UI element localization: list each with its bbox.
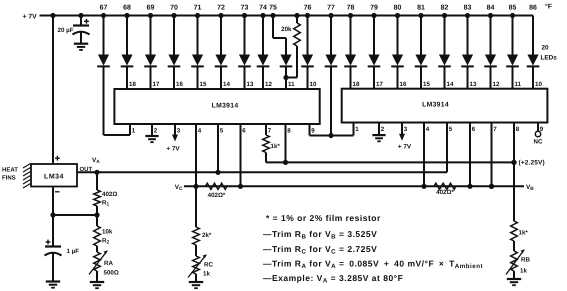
svg-text:70: 70	[170, 4, 178, 11]
svg-text:LEDs: LEDs	[541, 55, 558, 62]
svg-text:7: 7	[493, 126, 497, 133]
svg-text:76: 76	[304, 4, 312, 11]
svg-text:402Ω*: 402Ω*	[208, 192, 226, 199]
svg-text:RA: RA	[104, 260, 113, 267]
wire pin5 chip2 to VA line	[446, 123, 448, 173]
svg-text:20: 20	[542, 45, 550, 52]
svg-text:3: 3	[404, 126, 408, 133]
svg-text:80: 80	[394, 4, 402, 11]
node +2.25V junction	[511, 160, 516, 165]
svg-text:1 µF: 1 µF	[67, 248, 80, 255]
svg-text:8: 8	[287, 128, 291, 135]
svg-text:LM34: LM34	[44, 174, 64, 181]
ground of RA	[90, 281, 104, 283]
svg-text:67: 67	[100, 4, 108, 11]
node pin5/VA junction	[215, 170, 220, 175]
node pin6/mid junction	[238, 184, 243, 189]
svg-text:2k*: 2k*	[202, 232, 212, 239]
svg-text:1k*: 1k*	[519, 230, 529, 237]
svg-text:15: 15	[200, 81, 207, 88]
potentiometer RA 500ohm	[89, 250, 119, 282]
wire pin7 chip2 to VB	[491, 123, 493, 187]
svg-text:84: 84	[487, 4, 495, 11]
svg-text:78: 78	[347, 4, 355, 11]
svg-text:RC: RC	[204, 262, 213, 269]
LED 73	[238, 16, 251, 90]
svg-text:VC: VC	[175, 184, 183, 192]
svg-text:OUT: OUT	[80, 166, 93, 173]
wire pin4 chip1 to VC	[195, 124, 197, 186]
svg-text:4: 4	[426, 126, 430, 133]
LED 68	[121, 16, 134, 90]
svg-text:LM3914: LM3914	[422, 102, 449, 109]
svg-text:75: 75	[269, 4, 277, 11]
op-amp U1 LM3914 (left)	[114, 89, 319, 124]
svg-text:—Trim RB for VB = 3.525V: —Trim RB for VB = 3.525V	[263, 229, 377, 241]
pin numbers top chip2	[353, 81, 543, 88]
LED 83	[461, 16, 474, 89]
potentiometer RB 1k	[506, 249, 530, 278]
svg-text:86: 86	[529, 4, 537, 11]
LED 76	[301, 16, 314, 90]
svg-text:—Example: VA = 3.285V at 80°F: —Example: VA = 3.285V at 80°F	[263, 273, 403, 285]
svg-text:°F: °F	[545, 3, 552, 10]
LED 70	[168, 16, 181, 90]
svg-text:R2: R2	[102, 238, 109, 246]
svg-text:10: 10	[535, 81, 542, 88]
svg-text:1k*: 1k*	[271, 143, 281, 150]
LED 72	[215, 16, 228, 90]
LED 67	[97, 16, 110, 136]
wire pin6 chip2 to VB	[469, 123, 471, 187]
wire pin8 chip1 stub	[285, 124, 287, 162]
svg-text:74: 74	[259, 4, 267, 11]
svg-text:+ 7V: + 7V	[398, 144, 412, 151]
node R1/R2 junction	[94, 212, 99, 217]
resistor 1k* right	[511, 162, 529, 251]
LED 84	[484, 16, 497, 89]
svg-text:73: 73	[241, 4, 249, 11]
wire +7V top rail	[40, 15, 534, 17]
op-amp U2 LM3914 (right)	[342, 89, 548, 123]
svg-text:7: 7	[268, 128, 272, 135]
ground pin2 chip1	[145, 135, 158, 137]
node pin4 chip2 junction	[421, 184, 426, 189]
LED 77	[325, 16, 338, 136]
wire pin2 chip2 stub	[378, 123, 380, 136]
svg-text:14: 14	[447, 81, 454, 88]
svg-text:+ 7V: + 7V	[23, 13, 38, 20]
svg-text:14: 14	[223, 81, 230, 88]
wire rail to LM34	[52, 16, 54, 165]
label 20 LEDs	[541, 45, 558, 62]
svg-text:82: 82	[441, 4, 449, 11]
resistor 2k*	[193, 186, 212, 256]
heat fins hatching	[23, 164, 31, 189]
svg-text:* = 1% or 2% film resistor: * = 1% or 2% film resistor	[266, 213, 381, 223]
svg-text:69: 69	[147, 4, 155, 11]
transistor U3 LM34 sensor	[31, 156, 77, 192]
ground pin2 chip2	[372, 134, 385, 136]
svg-text:402Ω*: 402Ω*	[436, 189, 454, 196]
svg-text:VB: VB	[526, 184, 534, 192]
wire pin4 chip2 to VB line	[423, 123, 425, 187]
svg-text:8: 8	[516, 126, 520, 133]
svg-text:72: 72	[217, 4, 225, 11]
svg-text:6: 6	[472, 126, 476, 133]
svg-text:85: 85	[509, 4, 517, 11]
node LM34 minus junction	[50, 212, 55, 217]
resistor 1k* (chip1 ref)	[263, 124, 281, 162]
svg-text:3: 3	[177, 128, 181, 135]
svg-text:13: 13	[247, 81, 254, 88]
svg-text:402Ω: 402Ω	[102, 191, 117, 198]
node +7V rail junctions	[50, 13, 515, 18]
wire pin1 chip1 to LED67	[129, 124, 131, 135]
power +7V arrow chip1	[174, 124, 176, 136]
LED 86	[527, 16, 540, 89]
wire pin6 chip1 to midpoint	[240, 124, 242, 186]
wire pin11 chip1 stub	[285, 78, 287, 90]
svg-text:12: 12	[265, 81, 272, 88]
LED 79	[368, 16, 381, 89]
svg-text:10: 10	[310, 81, 317, 88]
wire VA line	[77, 171, 447, 173]
LED number labels 67-86	[100, 4, 537, 11]
svg-text:(+2.25V): (+2.25V)	[519, 160, 545, 167]
svg-text:68: 68	[123, 4, 131, 11]
ground of 1uF cap	[46, 280, 60, 282]
svg-text:2: 2	[154, 128, 158, 135]
svg-text:12: 12	[493, 81, 500, 88]
svg-text:13: 13	[470, 81, 477, 88]
svg-text:11: 11	[515, 81, 522, 88]
wire pin5 chip1 to VA	[217, 124, 219, 172]
svg-text:17: 17	[153, 81, 160, 88]
LED 74	[257, 16, 270, 90]
ground of RC	[189, 281, 203, 283]
svg-text:—Trim RA for VA = 0.085V + 40: —Trim RA for VA = 0.085V + 40 mV/°F × TA…	[263, 259, 483, 271]
svg-text:83: 83	[464, 4, 472, 11]
svg-text:2: 2	[381, 126, 385, 133]
LED 75	[273, 16, 292, 78]
wire +2.25V ref line	[266, 161, 514, 163]
LED 80	[391, 16, 404, 89]
LED 71	[191, 16, 204, 90]
node pin6 chip2 junction	[467, 184, 472, 189]
node LED75/20k junction	[283, 75, 288, 80]
power +7V arrow chip2	[401, 123, 403, 135]
node LED77 junction	[328, 133, 333, 138]
resistor R2 10k	[94, 215, 113, 252]
svg-text:71: 71	[194, 4, 202, 11]
resistor 402ohm* right	[434, 183, 456, 196]
LED 69	[144, 16, 157, 90]
svg-text:20k: 20k	[281, 26, 292, 33]
svg-text:5: 5	[449, 126, 453, 133]
wire LM34 minus lead	[52, 187, 54, 216]
LED 81	[415, 16, 428, 89]
node pin4 chip1 junction	[193, 184, 198, 189]
svg-text:HEAT: HEAT	[2, 167, 18, 174]
pin numbers bottom chip1	[132, 128, 315, 135]
potentiometer RC 1k	[188, 254, 213, 281]
svg-text:VA: VA	[92, 157, 100, 165]
svg-text:R1: R1	[102, 200, 109, 208]
svg-text:6: 6	[242, 128, 246, 135]
LED 85	[506, 16, 519, 89]
svg-text:77: 77	[327, 4, 335, 11]
svg-text:17: 17	[376, 81, 383, 88]
wire VC-VB line	[184, 185, 524, 187]
svg-text:+ 7V: + 7V	[166, 146, 180, 153]
resistor 402ohm* left	[206, 183, 228, 199]
capacitor 20uF bypass	[58, 16, 90, 44]
svg-text:5: 5	[220, 128, 224, 135]
svg-text:500Ω: 500Ω	[104, 270, 119, 277]
svg-text:10k: 10k	[102, 229, 113, 236]
resistor 20k	[281, 16, 300, 78]
svg-text:1k: 1k	[520, 268, 527, 275]
svg-text:RB: RB	[521, 257, 530, 264]
svg-text:NC: NC	[534, 138, 543, 145]
capacitor 1uF	[45, 215, 80, 281]
resistor R1 402ohm	[94, 172, 118, 215]
wire pin2 chip1 stub	[151, 124, 153, 136]
svg-text:18: 18	[129, 81, 136, 88]
svg-text:16: 16	[400, 81, 407, 88]
svg-text:4: 4	[198, 128, 202, 135]
ground of RB	[507, 278, 521, 280]
node pin7/VB junction	[489, 184, 494, 189]
svg-text:LM3914: LM3914	[212, 103, 239, 110]
node pin8 chip1 junction	[283, 160, 288, 165]
wire minus to divider	[53, 214, 97, 216]
svg-text:1k: 1k	[203, 271, 210, 278]
LED 82	[438, 16, 451, 89]
svg-text:81: 81	[417, 4, 425, 11]
wire pin8 chip2 to ref	[513, 123, 515, 163]
LED 78	[344, 16, 357, 89]
svg-text:18: 18	[353, 81, 360, 88]
label HEAT FINS	[2, 167, 18, 182]
svg-text:16: 16	[176, 81, 183, 88]
pin 9 chip2 NC	[537, 123, 539, 132]
wire pin9 chip1 to pin1 chip2	[309, 124, 311, 136]
node VA junction	[94, 170, 99, 175]
pin numbers bottom chip2	[355, 126, 544, 133]
svg-text:1: 1	[132, 128, 136, 135]
ground of 20uF cap	[74, 43, 88, 45]
svg-text:—Trim RC for VC = 2.725V: —Trim RC for VC = 2.725V	[263, 244, 377, 256]
svg-text:20 µF: 20 µF	[58, 27, 74, 34]
svg-text:9: 9	[311, 128, 315, 135]
svg-text:79: 79	[370, 4, 378, 11]
pin numbers top chip1	[129, 81, 317, 88]
svg-text:11: 11	[288, 81, 295, 88]
svg-text:FINS: FINS	[2, 175, 16, 182]
svg-text:15: 15	[423, 81, 430, 88]
svg-text:1: 1	[355, 126, 359, 133]
